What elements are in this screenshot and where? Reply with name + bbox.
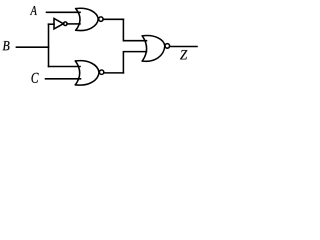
wire A to NOR1 top input	[47, 11, 81, 13]
NOR gate G1 (top) body	[76, 8, 98, 30]
wire C to NOR2 lower input	[46, 78, 81, 80]
wire down to NOR3 top input	[123, 19, 146, 40]
input label C	[31, 73, 38, 83]
input label B	[3, 41, 10, 50]
wire NOT output to NOR1 lower input	[67, 23, 80, 25]
inverter U1 triangle	[54, 19, 63, 29]
input label A	[30, 6, 37, 15]
wire NOR1 output	[103, 18, 123, 20]
wire NOR2 output	[104, 72, 124, 74]
wire up to NOR3 lower input	[123, 52, 146, 73]
inverter U1 bubble	[64, 22, 68, 26]
output label Z	[180, 50, 187, 59]
NOR gate G3 bubble	[165, 44, 170, 49]
wire B horizontal	[16, 46, 48, 48]
NOR gate G1 bubble	[99, 17, 103, 21]
NOR gate G2 bubble	[99, 70, 103, 74]
wire vertical branch at node B	[48, 24, 50, 66]
NOR gate G3 (output) body	[142, 36, 165, 62]
NOR gate G2 (bottom) body	[75, 61, 99, 85]
wire B branch to NOR2 top input	[49, 66, 81, 68]
wire Z output	[170, 46, 197, 48]
wire NOT gate input stub	[49, 23, 55, 25]
